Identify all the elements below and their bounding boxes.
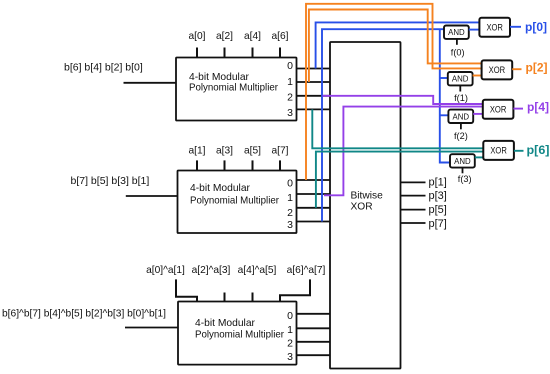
wire f0 stub	[456, 39, 458, 45]
svg-text:XOR: XOR	[490, 105, 507, 116]
wire orange U2.0 to XOR2	[306, 4, 482, 180]
wire orange U1.1 to XOR2	[309, 10, 482, 83]
wire U2 out2	[297, 207, 331, 209]
wire X2 output	[512, 68, 521, 70]
wire teal U2.2 to XOR4	[316, 152, 483, 208]
svg-text:2: 2	[287, 338, 293, 350]
svg-text:a[7]: a[7]	[272, 145, 289, 156]
wire p7 stub	[401, 222, 426, 224]
wire a[0] stub	[196, 48, 198, 58]
wire U3 out1	[297, 327, 331, 329]
svg-text:p[4]: p[4]	[527, 102, 549, 114]
AND gate A3	[448, 110, 473, 123]
svg-text:1: 1	[287, 76, 293, 88]
svg-text:a[0]: a[0]	[189, 31, 206, 42]
wire U1 out3	[297, 108, 331, 110]
wire p1 stub	[401, 181, 426, 183]
svg-text:Polynomial Multiplier: Polynomial Multiplier	[189, 83, 279, 94]
wire A3 output	[473, 113, 483, 115]
svg-text:AND: AND	[454, 157, 471, 166]
svg-text:XOR: XOR	[351, 201, 373, 212]
svg-text:b[7] b[5] b[3] b[1]: b[7] b[5] b[3] b[1]	[71, 175, 150, 187]
svg-text:XOR: XOR	[489, 65, 506, 76]
AND gate A1	[444, 26, 469, 39]
svg-text:0: 0	[287, 310, 293, 322]
svg-text:a[4]^a[5]: a[4]^a[5]	[238, 265, 277, 276]
svg-text:b[6] b[4] b[2] b[0]: b[6] b[4] b[2] b[0]	[64, 62, 143, 74]
wire A1 output	[469, 29, 480, 31]
wire U1 b input	[124, 82, 177, 84]
svg-text:1: 1	[287, 324, 293, 336]
wire X3 output	[513, 108, 523, 110]
wire U3 b input	[125, 327, 178, 329]
svg-text:a[6]: a[6]	[272, 31, 289, 42]
bitwise XOR block U4	[330, 42, 401, 369]
svg-text:b[6]^b[7] b[4]^b[5] b[2]^b[3]: b[6]^b[7] b[4]^b[5] b[2]^b[3] b[0]^b[1]	[2, 308, 166, 320]
svg-text:2: 2	[287, 91, 293, 103]
wire U2 out3	[297, 221, 331, 223]
wire blue vertical branch	[440, 29, 450, 162]
svg-text:a[1]: a[1]	[189, 145, 206, 156]
wire U3 out0	[297, 313, 331, 315]
wire a01 elbow	[176, 279, 197, 301]
AND gate A2	[448, 72, 473, 85]
wire f3 stub	[462, 168, 464, 174]
multiplier U2	[178, 171, 297, 234]
svg-text:0: 0	[287, 177, 293, 189]
svg-text:2: 2	[287, 207, 293, 219]
svg-text:a[3]: a[3]	[216, 145, 233, 156]
svg-text:AND: AND	[448, 28, 465, 37]
wire U2 out1	[297, 193, 331, 195]
wire a23 stub	[224, 293, 226, 302]
wire blue U1.0 to XOR1	[316, 22, 480, 68]
svg-text:Bitwise: Bitwise	[351, 191, 384, 202]
wire X4 output	[514, 150, 524, 152]
svg-text:Polynomial Multiplier: Polynomial Multiplier	[195, 330, 285, 341]
wire U3 out3	[297, 354, 331, 356]
svg-text:AND: AND	[452, 75, 469, 84]
svg-text:p[3]: p[3]	[429, 190, 447, 202]
wire a[1] stub	[196, 160, 198, 170]
multiplier U1	[176, 58, 297, 121]
wire a45 stub	[252, 293, 254, 302]
svg-text:0: 0	[287, 60, 293, 72]
wire blue branch AND2	[440, 77, 448, 79]
XOR gate X2	[482, 60, 513, 79]
wire a[5] stub	[252, 160, 254, 170]
svg-text:1: 1	[287, 192, 293, 204]
wire blue U2.3 to AND chain	[322, 29, 445, 221]
svg-text:a[2]: a[2]	[216, 31, 233, 42]
svg-text:4-bit Modular: 4-bit Modular	[190, 183, 251, 194]
wire a[7] stub	[279, 160, 281, 170]
XOR gate X4	[483, 141, 514, 160]
wire p3 stub	[401, 195, 426, 197]
svg-text:3: 3	[287, 107, 293, 119]
wire U2 out0	[297, 179, 331, 181]
wire U3 out2	[297, 341, 331, 343]
wire A2 output	[473, 75, 482, 77]
wire a67 elbow	[280, 279, 310, 301]
svg-text:a[4]: a[4]	[244, 31, 261, 42]
svg-text:a[0]^a[1]: a[0]^a[1]	[146, 265, 185, 276]
wire U1 out2	[297, 95, 331, 97]
svg-text:AND: AND	[453, 112, 470, 121]
svg-text:3: 3	[287, 219, 293, 231]
AND gate A4	[450, 154, 475, 167]
wire U1 out0	[297, 68, 331, 70]
wire blue branch AND3	[440, 114, 449, 116]
svg-text:p[7]: p[7]	[429, 218, 447, 230]
svg-text:p[1]: p[1]	[429, 176, 447, 188]
svg-text:p[6]: p[6]	[527, 145, 550, 157]
multiplier U3	[178, 302, 297, 365]
svg-text:p[5]: p[5]	[429, 204, 447, 216]
svg-text:4-bit Modular: 4-bit Modular	[189, 72, 250, 83]
wire a[2] stub	[224, 48, 226, 58]
svg-text:f(2): f(2)	[454, 131, 468, 141]
wire X1 output	[510, 26, 521, 28]
XOR gate X3	[483, 100, 514, 119]
svg-text:a[2]^a[3]: a[2]^a[3]	[192, 265, 231, 276]
svg-text:XOR: XOR	[490, 146, 507, 157]
svg-text:a[6]^a[7]: a[6]^a[7]	[287, 265, 326, 276]
wire f1 stub	[459, 85, 461, 91]
svg-text:3: 3	[287, 351, 293, 363]
wire f2 stub	[460, 123, 462, 129]
wire A4 output	[475, 156, 484, 158]
wire purple U1.2 to XOR3	[323, 96, 483, 104]
svg-text:a[5]: a[5]	[244, 145, 261, 156]
svg-text:Polynomial Multiplier: Polynomial Multiplier	[190, 195, 280, 206]
svg-text:f(3): f(3)	[458, 174, 472, 184]
XOR gate X1	[479, 18, 510, 37]
wire teal U1.3 to XOR4	[312, 109, 483, 148]
wire p5 stub	[401, 209, 426, 211]
wire U2 b input	[126, 195, 178, 197]
svg-text:4-bit Modular: 4-bit Modular	[195, 318, 256, 329]
wire a[6] stub	[279, 48, 281, 58]
svg-text:f(0): f(0)	[451, 48, 465, 58]
svg-text:p[0]: p[0]	[525, 22, 547, 34]
wire a[4] stub	[252, 48, 254, 58]
svg-text:f(1): f(1)	[454, 93, 468, 103]
wire purple U2.1 to XOR3	[324, 107, 483, 196]
svg-text:XOR: XOR	[486, 23, 503, 34]
wire U1 out1	[297, 81, 331, 83]
wire a[3] stub	[224, 160, 226, 170]
svg-text:p[2]: p[2]	[526, 63, 548, 75]
